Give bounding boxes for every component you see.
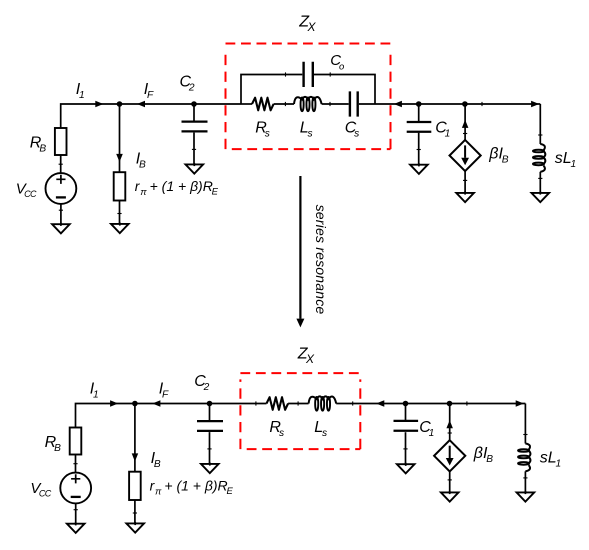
current arrow IB (bottom) xyxy=(132,453,139,461)
wire: diamond to ground (bottom) xyxy=(449,471,451,492)
current arrow I1 xyxy=(95,101,103,107)
ground (C1 branch, top) xyxy=(418,163,420,166)
wire joint tick xyxy=(448,432,452,434)
wire joint tick xyxy=(463,133,467,135)
wire joint tick xyxy=(192,148,196,150)
node source junction (bottom) xyxy=(447,401,453,407)
wire: C1 to ground (bottom) xyxy=(405,432,407,464)
ground (C1 branch, bottom) xyxy=(405,463,407,466)
voltage source VCC (bottom) xyxy=(60,473,91,504)
capacitor Cs xyxy=(350,91,358,116)
wire joint tick xyxy=(417,149,421,151)
capacitor Co xyxy=(304,62,313,87)
wire: sL1 to ground (bottom) xyxy=(524,471,526,492)
wire joint tick xyxy=(133,512,137,514)
node source junction (top) xyxy=(462,101,468,107)
wire joint tick xyxy=(207,448,211,450)
ground (source branch, bottom) xyxy=(449,491,451,494)
wire: node A down to r_pi resistor (bottom) xyxy=(134,404,136,472)
resistor RB (bottom) xyxy=(70,428,82,455)
ground (C2 branch, top) xyxy=(193,163,195,166)
wire joint tick xyxy=(448,479,452,481)
dependent current source beta*IB (bottom) xyxy=(434,440,465,471)
wire joint tick xyxy=(538,177,542,179)
current arrow IF xyxy=(137,101,145,107)
node C1 junction (top) xyxy=(416,101,422,107)
wire: C2 node into ZX box (bottom) xyxy=(210,403,267,405)
wire: source node to sL1 corner (bottom) xyxy=(450,403,526,405)
current arrow into sL1 (bottom) xyxy=(516,400,524,407)
resistor Rs (top) xyxy=(252,98,274,111)
resistor RB (top) xyxy=(55,128,67,155)
dependent current source beta*IB (top) xyxy=(450,140,481,171)
wire joint tick xyxy=(297,401,299,405)
wire joint tick xyxy=(329,102,331,106)
inductor Ls (bottom) xyxy=(309,396,337,403)
wire: VCC branch top corner to node A xyxy=(61,104,120,128)
node C2 junction (bottom) xyxy=(207,401,213,407)
wire: Ls to Cs xyxy=(322,103,349,105)
current arrow I1 (bottom) xyxy=(110,400,118,407)
wire joint tick xyxy=(74,509,78,511)
wire: VCC to ground (bottom) xyxy=(75,503,77,523)
wire: node down to diamond source xyxy=(464,104,466,140)
resistor r_pi+(1+beta)RE (top) xyxy=(114,172,126,200)
wire joint tick xyxy=(329,72,331,76)
wire joint tick xyxy=(523,434,527,436)
wire joint tick xyxy=(352,401,354,405)
wire: source node to sL1 corner xyxy=(465,103,540,105)
wire joint tick xyxy=(538,134,542,136)
inductor Ls (top) xyxy=(294,97,322,104)
wire: Co to right riser down to main branch xyxy=(314,75,375,105)
wire: Ls through box edge to C1 node (bottom) xyxy=(336,403,405,405)
ground (VCC branch, bottom) xyxy=(75,522,77,525)
wire: sL1 to ground xyxy=(539,172,541,193)
ground (source branch, top) xyxy=(464,191,466,194)
ground (IB branch, top) xyxy=(119,222,121,225)
wire: down to C1 (bottom) xyxy=(405,404,407,421)
current direction arrow at source (top) xyxy=(462,120,469,128)
node C2 junction (top) xyxy=(191,101,197,107)
wire: node A to C2 node xyxy=(120,103,195,105)
current arrow IF (bottom) xyxy=(152,400,160,407)
wire joint tick xyxy=(285,72,287,76)
impedance ZX outline, bottom (red dashed box) xyxy=(240,373,360,449)
wire: junction down to C2 xyxy=(193,104,195,121)
resistor r_pi+(1+beta)RE (bottom) xyxy=(129,472,141,500)
wire: C2 to ground (bottom) xyxy=(209,432,211,464)
current direction arrow at source (bottom) xyxy=(446,420,453,428)
ground (sL1 branch, bottom) xyxy=(524,491,526,494)
wire joint tick xyxy=(284,102,286,106)
wire: node A to C2 node (bottom) xyxy=(135,403,210,405)
wire: RB to VCC xyxy=(60,155,62,173)
capacitor C1 (top) xyxy=(407,122,432,132)
wire: C2 to ground xyxy=(193,133,195,165)
transformation arrow shaft xyxy=(299,176,301,319)
capacitor C2 (bottom) xyxy=(197,421,223,431)
node A (base node, bottom) xyxy=(132,401,138,407)
wire: node down to diamond source (bottom) xyxy=(449,404,451,441)
wire: RB to VCC (bottom) xyxy=(75,455,77,473)
voltage source VCC (top) xyxy=(46,173,77,204)
wire: r_pi resistor to ground xyxy=(119,201,121,224)
ground (sL1 branch, top) xyxy=(539,191,541,194)
wire: VCC branch corner to node A (bottom) xyxy=(76,404,135,428)
wire: into Rs xyxy=(241,103,252,105)
current arrow out of ZX (bottom) xyxy=(376,400,384,407)
wire: corner down to sL1 coil (bottom) xyxy=(524,404,526,444)
svg-text:π: π xyxy=(140,187,147,198)
wire: Rs to Ls xyxy=(274,103,294,105)
wire: C1 node to source node xyxy=(419,103,465,105)
capacitor C1 (bottom) xyxy=(394,421,419,431)
node A (base node, top) xyxy=(117,101,123,107)
wire: down to C1 xyxy=(418,104,420,121)
current arrow into sL1 (top) xyxy=(531,101,539,107)
wire: C1 node to source node (bottom) xyxy=(406,403,450,405)
wire: corner down to sL1 coil xyxy=(539,104,541,144)
impedance ZX outline, top (red dashed box) xyxy=(226,44,391,150)
wire joint tick xyxy=(523,477,527,479)
wire joint tick xyxy=(59,163,63,165)
transformation arrow head xyxy=(296,319,304,328)
current arrow out of ZX (top) xyxy=(394,101,402,107)
wire joint tick xyxy=(59,209,63,211)
svg-text:π: π xyxy=(155,486,162,497)
wire: VCC to ground xyxy=(60,204,62,224)
ground (VCC branch, top) xyxy=(60,223,62,226)
wire joint tick xyxy=(481,102,483,106)
wire joint tick xyxy=(466,401,468,405)
svg-text:series resonance: series resonance xyxy=(313,205,329,315)
resistor Rs (bottom) xyxy=(267,397,289,410)
wire: C1 to ground xyxy=(418,133,420,165)
wire: node A down to r_pi resistor xyxy=(119,104,121,172)
inductor sL1 (top) xyxy=(540,144,545,150)
ground (C2 branch, bottom) xyxy=(209,462,211,465)
wire joint tick xyxy=(255,401,257,405)
node C1 junction (bottom) xyxy=(403,401,409,407)
wire joint tick xyxy=(403,448,407,450)
wire joint tick xyxy=(117,213,121,215)
wire: Cs through box edge to C1 node xyxy=(359,103,419,105)
wire: junction down to C2 (bottom) xyxy=(209,404,211,421)
wire: r_pi resistor to ground (bottom) xyxy=(134,500,136,523)
wire joint tick xyxy=(73,463,77,465)
inductor sL1 (bottom) xyxy=(525,444,530,450)
current arrow IB xyxy=(116,154,123,162)
wire: Rs to Ls (bottom) xyxy=(288,403,309,405)
capacitor C2 (top) xyxy=(182,122,208,132)
ground (IB branch, bottom) xyxy=(134,522,136,525)
wire: left riser and top branch to Co xyxy=(241,75,302,105)
wire joint tick xyxy=(463,179,467,181)
wire: diamond to ground xyxy=(464,171,466,193)
wire: C2 node into ZX box xyxy=(194,103,241,105)
